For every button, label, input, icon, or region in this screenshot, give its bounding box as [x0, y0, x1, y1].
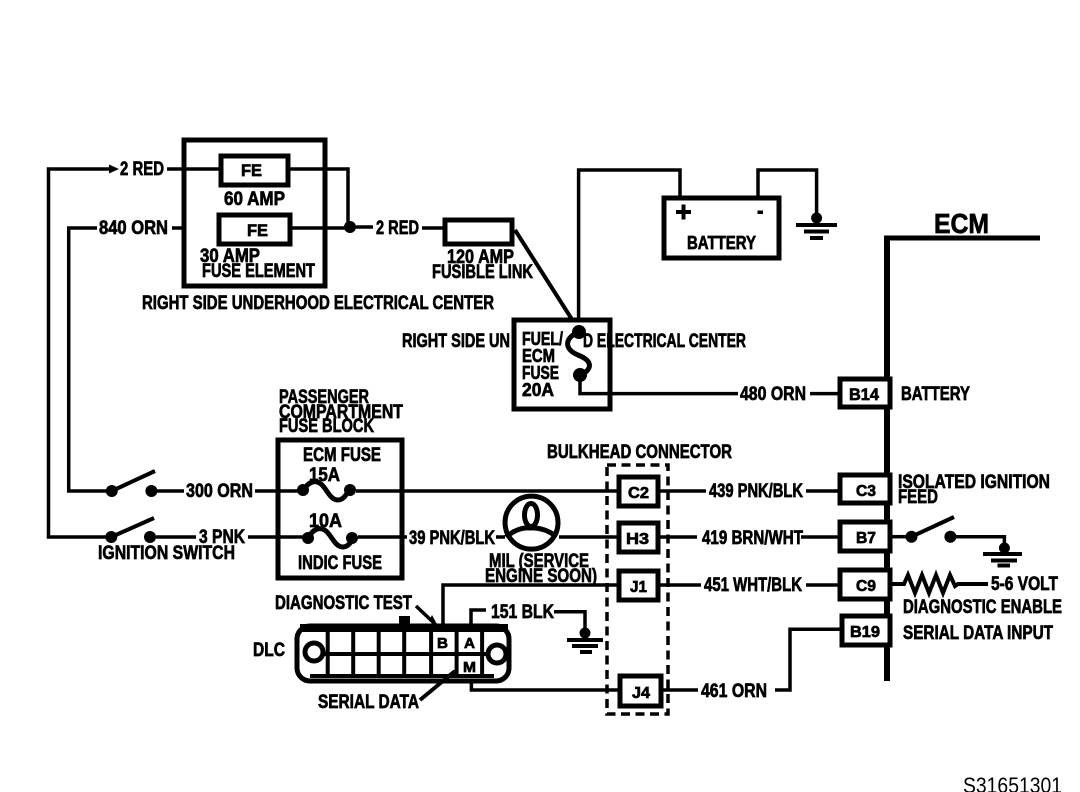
svg-text:60 AMP: 60 AMP: [224, 189, 285, 210]
wire: 840 ORN label to underhood center box: [172, 226, 220, 230]
svg-text:INDIC FUSE: INDIC FUSE: [298, 553, 382, 574]
ECM pin B19: [842, 616, 890, 645]
wire: 3 PNK into fuse block: [248, 535, 308, 539]
svg-text:FEED: FEED: [898, 487, 938, 508]
svg-text:FE: FE: [241, 161, 262, 180]
svg-text:J1: J1: [630, 579, 647, 596]
svg-text:RIGHT SIDE UNDERHOOD ELECTRICA: RIGHT SIDE UNDERHOOD ELECTRICAL CENTER: [142, 293, 494, 314]
wire: junction to 2 RED label (second): [356, 225, 373, 229]
fuse top dot: [572, 325, 586, 339]
wire: DLC pin A to 151 BLK bracket: [471, 610, 486, 627]
svg-text:IGNITION SWITCH: IGNITION SWITCH: [98, 543, 235, 564]
wire: label to B7: [801, 535, 841, 539]
box: passenger compartment fuse block: [278, 440, 402, 578]
ECM vertical line: [884, 236, 890, 681]
wire: 151 BLK to ground G3: [554, 612, 585, 631]
fusible link FL (120 AMP): [445, 220, 512, 244]
bulkhead pin H3: [619, 523, 658, 552]
svg-text:C3: C3: [856, 483, 876, 500]
DLC mounting hole right: [488, 645, 506, 663]
bulkhead pin C2: [619, 477, 658, 506]
svg-text:5-6 VOLT: 5-6 VOLT: [991, 574, 1058, 595]
wire: H3 to 419 BRN/WHT: [658, 535, 697, 539]
wire: J1 to 451 WHT/BLK: [658, 583, 701, 587]
ground G2 (ECM internal): [983, 543, 1022, 566]
DLC top tab: [399, 616, 410, 626]
svg-text:DLC: DLC: [253, 640, 285, 661]
svg-text:DIAGNOSTIC TEST: DIAGNOSTIC TEST: [275, 593, 412, 614]
svg-text:461 ORN: 461 ORN: [701, 681, 767, 702]
svg-text:439 PNK/BLK: 439 PNK/BLK: [709, 481, 803, 502]
fuse element FE1 (60 AMP): [221, 156, 288, 185]
arrowhead to 2 RED label: [109, 165, 119, 174]
svg-text:S31651301: S31651301: [963, 773, 1062, 792]
wire: inside box to FE1: [184, 167, 222, 171]
resistor (diagnostic enable pull-up): [890, 575, 988, 593]
box: right side underhood electrical center: [184, 140, 325, 286]
DLC connector body: [297, 624, 509, 681]
bulkhead pin J1: [619, 571, 658, 600]
ECM pin C3: [840, 475, 890, 503]
wire: 461 ORN to J4: [662, 688, 698, 692]
svg-text:D ELECTRICAL CENTER: D ELECTRICAL CENTER: [583, 331, 746, 352]
svg-text:B14: B14: [849, 385, 880, 404]
wire: J1 down to DLC pin B: [443, 585, 619, 626]
wire: left feed vertical V2 (840 ORN branch): [69, 228, 111, 491]
bulkhead connector dashed box: [607, 465, 668, 714]
wire: J4 to DLC pin M: [471, 672, 620, 690]
wire: switch to 3 PNK label: [156, 535, 196, 539]
line: serial data to DLC pin M: [420, 671, 455, 700]
wire: battery positive feed down to fuel/ecm fuse: [579, 170, 680, 330]
svg-text:RIGHT SIDE UN: RIGHT SIDE UN: [402, 331, 510, 352]
svg-text:FUSE ELEMENT: FUSE ELEMENT: [202, 261, 315, 282]
wire: 2 RED label to underhood center box: [167, 167, 222, 171]
wire: fuse F2 to 39 PNK/BLK: [358, 535, 407, 539]
wire: diagonal from fusible link to fuel/ecm fuse: [515, 230, 580, 332]
svg-text:B: B: [437, 635, 448, 652]
svg-text:2 RED: 2 RED: [120, 159, 164, 180]
battery minus terminal mark: [758, 211, 764, 215]
fuse F1 (ECM fuse 15A): [297, 482, 356, 500]
svg-text:39 PNK/BLK: 39 PNK/BLK: [409, 528, 495, 549]
wire: label to fusible link: [422, 226, 444, 230]
ground G3 (151 BLK): [567, 628, 603, 653]
wire: label to C3: [806, 489, 841, 493]
ECM top horizontal line: [884, 236, 1040, 241]
svg-text:FE: FE: [247, 221, 268, 240]
ECM pin B7: [840, 522, 890, 551]
wire: switch to ground G2: [956, 537, 1004, 546]
svg-text:H3: H3: [626, 531, 649, 548]
svg-text:J4: J4: [632, 685, 650, 702]
ground G1 (battery): [796, 213, 837, 239]
junction dot at 2 RED node: [344, 221, 356, 233]
svg-text:C2: C2: [628, 485, 649, 502]
svg-text:BATTERY: BATTERY: [901, 384, 970, 405]
bulkhead pin J4: [620, 676, 661, 706]
svg-text:2 RED: 2 RED: [376, 218, 419, 239]
wire: 480 ORN to B14: [810, 392, 841, 396]
fuse element squiggle (fuel/ecm fuse): [568, 332, 590, 376]
battery plus terminal mark: [676, 205, 691, 220]
wire: FE2 right through box edge to junction: [290, 226, 352, 230]
svg-text:840 ORN: 840 ORN: [99, 218, 168, 239]
fuse F2 (INDIC fuse 10A): [302, 529, 358, 547]
svg-text:SERIAL DATA: SERIAL DATA: [318, 692, 419, 713]
MIL lamp (service engine soon): [505, 496, 558, 549]
wire: fuse F1 to C2: [356, 489, 619, 493]
svg-text:419 BRN/WHT: 419 BRN/WHT: [702, 528, 803, 549]
wire: label to MIL lamp: [496, 535, 505, 539]
ignition switch pole 2 (3 PNK): [105, 518, 156, 543]
wire: B19 to 461 ORN corner: [775, 629, 842, 690]
wire: battery negative to ground: [758, 170, 817, 216]
wire: C2 to 439 PNK/BLK: [658, 489, 706, 493]
svg-text:FUSIBLE LINK: FUSIBLE LINK: [432, 262, 533, 283]
svg-text:C9: C9: [856, 578, 876, 595]
fuse element FE2 (30 AMP): [219, 215, 290, 244]
svg-text:B19: B19: [850, 624, 880, 641]
fuse bottom dot: [573, 368, 587, 382]
ECM pin C9: [840, 570, 890, 599]
svg-text:20A: 20A: [522, 380, 554, 400]
svg-text:151 BLK: 151 BLK: [491, 602, 554, 623]
svg-text:480 ORN: 480 ORN: [740, 384, 806, 405]
wire: label to C9: [806, 583, 841, 587]
svg-text:B7: B7: [856, 530, 876, 547]
svg-text:BULKHEAD CONNECTOR: BULKHEAD CONNECTOR: [547, 442, 732, 463]
wire: switch to 300 ORN label: [157, 489, 184, 493]
svg-text:M: M: [463, 659, 476, 676]
ignition switch pole 1 (300 ORN): [106, 471, 158, 497]
wire: left feed vertical V1 (2 RED branch): [49, 169, 113, 537]
switch (ECM internal, B7): [906, 517, 957, 543]
battery B+: [664, 198, 779, 258]
wire: fuse to 480 ORN: [580, 375, 738, 394]
svg-text:SERIAL DATA INPUT: SERIAL DATA INPUT: [903, 623, 1053, 644]
wire: 300 ORN into fuse block: [255, 489, 303, 493]
svg-text:FUSE BLOCK: FUSE BLOCK: [279, 416, 374, 437]
DLC mounting hole left: [305, 643, 323, 661]
wire: MIL lamp to H3: [559, 535, 619, 539]
svg-text:BATTERY: BATTERY: [687, 233, 756, 253]
svg-text:DIAGNOSTIC ENABLE: DIAGNOSTIC ENABLE: [903, 597, 1062, 618]
arrow: diagnostic test to DLC pin B: [416, 606, 434, 623]
wire: FE1 right to corner down to junction: [288, 169, 348, 224]
wire: B7 to internal switch: [890, 535, 906, 539]
ECM pin B14: [840, 379, 890, 407]
box: fuel/ecm fuse 20A: [514, 320, 610, 409]
svg-text:ECM: ECM: [934, 208, 989, 239]
svg-text:451 WHT/BLK: 451 WHT/BLK: [704, 575, 802, 596]
svg-text:ECM FUSE: ECM FUSE: [303, 445, 381, 466]
svg-text:300 ORN: 300 ORN: [186, 481, 253, 502]
svg-text:A: A: [464, 635, 475, 652]
